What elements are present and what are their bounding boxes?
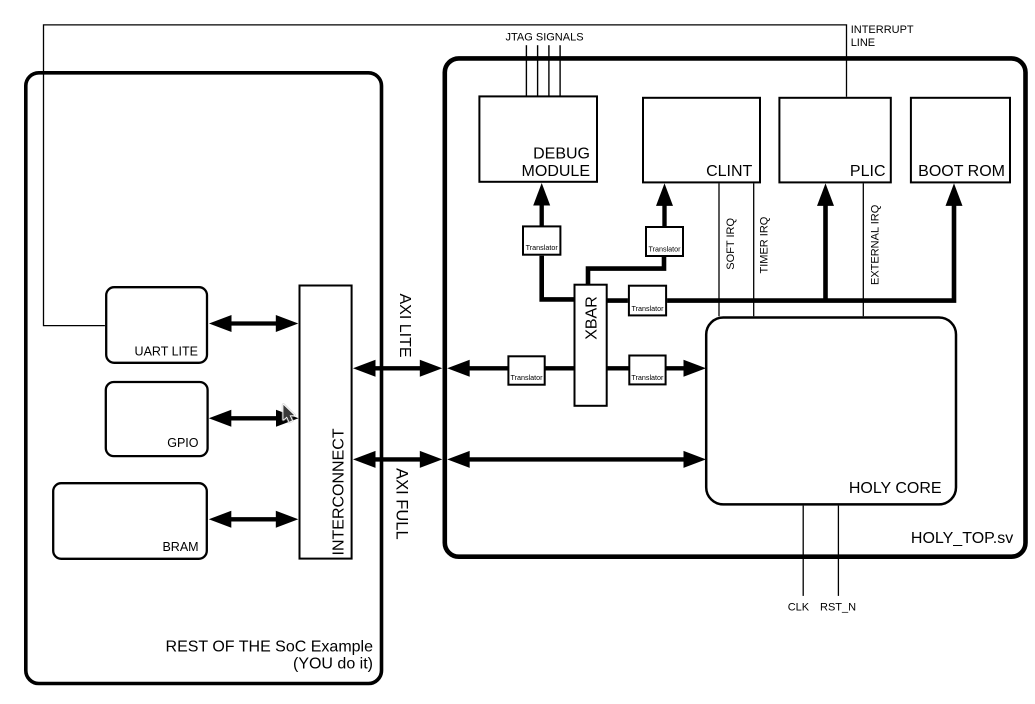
svg-text:DEBUG: DEBUG bbox=[533, 146, 590, 163]
svg-text:CLK: CLK bbox=[788, 602, 810, 614]
svg-text:EXTERNAL IRQ: EXTERNAL IRQ bbox=[870, 204, 882, 285]
svg-text:RST_N: RST_N bbox=[820, 602, 856, 614]
svg-text:SOFT IRQ: SOFT IRQ bbox=[725, 218, 737, 270]
svg-text:AXI FULL: AXI FULL bbox=[393, 468, 411, 540]
svg-text:Translator: Translator bbox=[510, 373, 543, 382]
svg-text:(YOU do it): (YOU do it) bbox=[293, 656, 373, 673]
svg-text:HOLY CORE: HOLY CORE bbox=[849, 480, 942, 497]
svg-text:PLIC: PLIC bbox=[850, 163, 886, 180]
svg-text:CLINT: CLINT bbox=[706, 163, 752, 180]
svg-text:BOOT ROM: BOOT ROM bbox=[918, 163, 1005, 180]
svg-text:LINE: LINE bbox=[851, 37, 875, 49]
svg-text:HOLY_TOP.sv: HOLY_TOP.sv bbox=[911, 530, 1013, 547]
svg-text:Translator: Translator bbox=[648, 245, 681, 254]
svg-text:INTERRUPT: INTERRUPT bbox=[851, 24, 914, 36]
svg-text:AXI LITE: AXI LITE bbox=[396, 294, 413, 358]
svg-text:TIMER IRQ: TIMER IRQ bbox=[759, 216, 771, 273]
svg-text:XBAR: XBAR bbox=[583, 296, 600, 340]
svg-text:BRAM: BRAM bbox=[162, 540, 198, 554]
svg-text:UART LITE: UART LITE bbox=[135, 345, 198, 359]
svg-text:REST OF THE SoC Example: REST OF THE SoC Example bbox=[166, 639, 374, 656]
svg-text:Translator: Translator bbox=[631, 304, 664, 313]
svg-text:JTAG SIGNALS: JTAG SIGNALS bbox=[506, 31, 584, 43]
svg-text:Translator: Translator bbox=[526, 243, 559, 252]
svg-text:MODULE: MODULE bbox=[522, 163, 590, 180]
svg-text:INTERCONNECT: INTERCONNECT bbox=[331, 428, 348, 555]
svg-text:Translator: Translator bbox=[631, 373, 664, 382]
svg-text:GPIO: GPIO bbox=[167, 436, 199, 450]
